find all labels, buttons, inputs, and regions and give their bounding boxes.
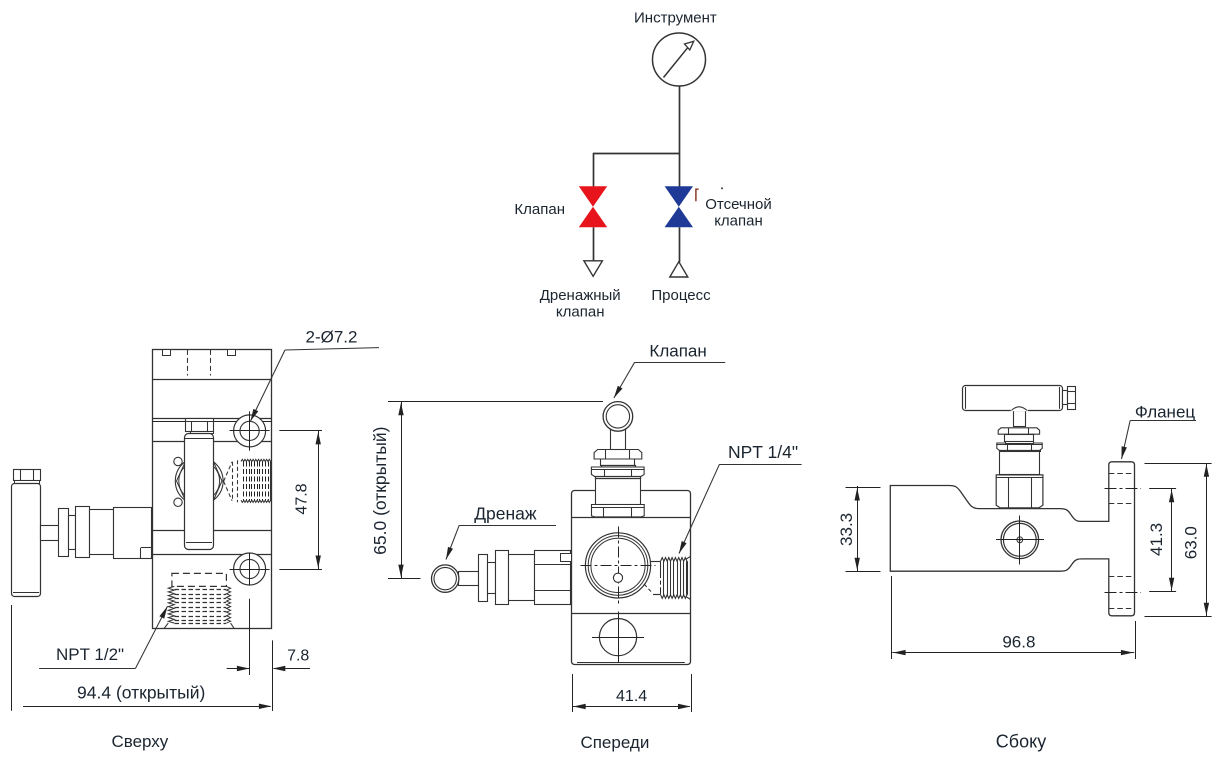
svg-text:Фланец: Фланец — [1135, 403, 1196, 422]
svg-text:41.4: 41.4 — [616, 688, 647, 705]
svg-text:Процесс: Процесс — [651, 287, 711, 304]
svg-text:41.3: 41.3 — [1147, 523, 1166, 556]
svg-text:Инструмент: Инструмент — [634, 9, 717, 26]
svg-text:NPT 1/4": NPT 1/4" — [728, 442, 798, 462]
svg-text:65.0 (открытый): 65.0 (открытый) — [370, 427, 390, 555]
svg-text:96.8: 96.8 — [1002, 633, 1035, 652]
svg-text:Дренаж: Дренаж — [474, 504, 537, 524]
svg-text:Клапан: Клапан — [649, 341, 706, 360]
svg-text:47.8: 47.8 — [294, 483, 311, 514]
svg-text:клапан: клапан — [556, 303, 605, 320]
svg-text:Отсечной: Отсечной — [705, 196, 772, 213]
svg-text:94.4 (открытый): 94.4 (открытый) — [77, 683, 205, 703]
svg-text:Дренажный: Дренажный — [540, 287, 621, 304]
svg-text:33.3: 33.3 — [837, 513, 856, 546]
svg-text:2-Ø7.2: 2-Ø7.2 — [306, 327, 358, 346]
svg-text:Сверху: Сверху — [111, 732, 168, 751]
svg-text:7.8: 7.8 — [287, 647, 309, 664]
svg-text:Спереди: Спереди — [580, 733, 649, 752]
svg-text:63.0: 63.0 — [1181, 526, 1200, 559]
svg-text:Сбоку: Сбоку — [996, 732, 1046, 752]
svg-text:клапан: клапан — [714, 213, 763, 230]
svg-text:NPT 1/2": NPT 1/2" — [56, 645, 124, 664]
svg-text:Клапан: Клапан — [514, 201, 565, 218]
